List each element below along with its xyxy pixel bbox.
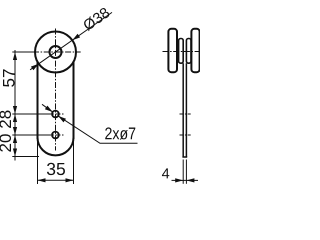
dim 20 extension line (lower hole) — [12, 134, 47, 136]
side view hole 1 centerline tick — [180, 113, 191, 115]
dim 57/28/20 dimension line — [14, 50, 16, 161]
bracket right edge — [73, 62, 75, 140]
dim 35 extension line left — [37, 139, 39, 184]
dim 20 extension line (bracket bottom) — [12, 156, 39, 158]
dim 57 arrow top — [13, 52, 17, 60]
vertical centerline (part axis) — [55, 29, 57, 151]
leader 2xø7 arrow upper — [45, 106, 53, 112]
svg-text:57: 57 — [0, 69, 19, 88]
wheel circle Ø38 — [35, 32, 76, 73]
side view hole 2 centerline tick — [180, 134, 191, 136]
side view strap right edge — [185, 63, 187, 157]
side view left flange — [168, 29, 177, 72]
svg-text:20: 20 — [0, 134, 15, 153]
dim 4 arrow left — [175, 178, 183, 182]
side view strap left edge — [182, 63, 184, 157]
side view left hub spacer — [179, 39, 184, 64]
dim 35 arrow right — [66, 178, 74, 182]
svg-text:4: 4 — [162, 166, 170, 182]
dim 28 arrow top — [13, 114, 17, 122]
side view right flange — [191, 29, 199, 72]
side view right hub spacer — [186, 39, 191, 64]
dim 4 extension line right — [185, 160, 187, 184]
bracket bottom arc — [38, 137, 74, 155]
leader 2xø7 line — [58, 116, 137, 143]
side view strap bottom — [182, 156, 187, 158]
dim 4 arrow right — [186, 178, 194, 182]
dim 20 arrow bottom — [13, 149, 17, 157]
dim 28 extension line (upper hole) — [12, 113, 47, 115]
leader 2xø7 arrow lower — [58, 116, 66, 122]
horizontal centerline (wheel axis, front view) — [33, 51, 81, 53]
hole 1 centerline — [46, 113, 64, 115]
dim 35 dimension line — [38, 179, 74, 181]
dim 35 extension line right — [73, 139, 75, 184]
dim 57 extension line at wheel center — [12, 51, 35, 53]
dimension Ø38 arrow lower — [31, 64, 39, 70]
svg-text:35: 35 — [46, 159, 65, 179]
leader 2xø7 tail — [42, 104, 53, 112]
dim 4 dimension line — [172, 179, 199, 181]
dim 28 arrow bottom — [13, 127, 17, 135]
svg-text:2xø7: 2xø7 — [105, 124, 137, 143]
side view horizontal centerline — [163, 51, 200, 53]
hole 2 (lower ø7) — [52, 132, 59, 139]
hub circle — [50, 46, 62, 58]
dim 35 arrow left — [38, 178, 46, 182]
bracket left edge — [37, 62, 39, 140]
dim 4 extension line left — [182, 160, 184, 184]
dimension Ø38 arrow upper — [72, 34, 80, 40]
hole 1 (upper ø7) — [52, 111, 59, 118]
dim 20 arrow top — [13, 135, 17, 143]
dimension Ø38 line — [30, 12, 112, 69]
svg-text:28: 28 — [0, 110, 15, 129]
dim 57 arrow bottom — [13, 106, 17, 114]
hole 2 centerline — [46, 134, 64, 136]
